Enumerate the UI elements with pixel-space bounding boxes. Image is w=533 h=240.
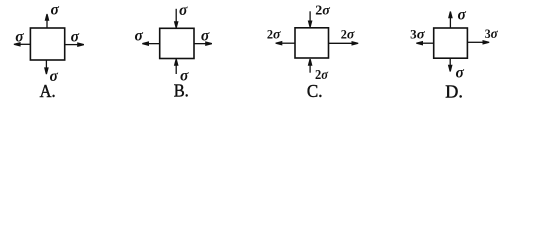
svg-text:2σ: 2σ: [267, 28, 281, 43]
svg-text:σ: σ: [201, 28, 210, 45]
svg-text:σ: σ: [179, 2, 188, 19]
arrow B top (inward down): [175, 9, 177, 23]
svg-text:σ: σ: [458, 7, 467, 24]
square element A: [30, 28, 64, 60]
svg-text:D.: D.: [445, 82, 463, 102]
arrow A left (outward): [20, 43, 30, 45]
arrow D left (outward): [423, 42, 434, 44]
svg-text:3σ: 3σ: [485, 27, 498, 42]
arrow B bottom (inward up): [175, 65, 177, 75]
square element C: [295, 28, 329, 58]
svg-text:2σ: 2σ: [341, 28, 355, 43]
arrow D top (outward up): [449, 18, 451, 28]
svg-text:σ: σ: [15, 28, 24, 45]
arrow C left (outward): [282, 42, 295, 44]
svg-text:2σ: 2σ: [315, 3, 330, 18]
arrow B left (outward): [149, 43, 160, 45]
arrow B right (outward): [194, 43, 206, 45]
arrow C bottom (inward up): [309, 64, 311, 72]
svg-text:σ: σ: [135, 28, 144, 45]
arrow D bottom (outward down): [449, 58, 451, 65]
svg-text:3σ: 3σ: [410, 28, 425, 43]
arrow A right (outward): [65, 44, 79, 46]
arrow C right (outward): [329, 42, 352, 44]
square element D: [434, 28, 468, 58]
svg-text:σ: σ: [71, 28, 80, 45]
arrow A top (outward up): [46, 20, 48, 28]
arrow C top (inward down): [309, 11, 311, 21]
arrow D right (outward): [467, 41, 482, 43]
svg-text:A.: A.: [40, 81, 56, 101]
svg-text:σ: σ: [456, 65, 465, 82]
arrow A bottom (outward down): [45, 60, 47, 68]
svg-text:σ: σ: [51, 2, 60, 19]
svg-text:B.: B.: [174, 80, 189, 100]
svg-text:C.: C.: [307, 81, 323, 101]
square element B: [160, 28, 194, 58]
